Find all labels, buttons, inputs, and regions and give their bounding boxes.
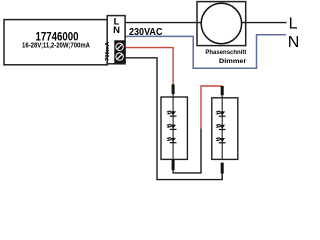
svg-text:N: N (113, 25, 120, 36)
LED module 2 anode pin (221, 86, 224, 95)
svg-text:L: L (289, 16, 298, 33)
LED D5 (215, 124, 225, 130)
driver box 17746000 (4, 20, 107, 65)
svg-text:Phasenschnitt: Phasenschnitt (205, 49, 247, 56)
terminal block on driver (107, 16, 125, 64)
LED D3 (166, 137, 176, 143)
wire L live 230VAC from driver to dimmer and mains L (125, 22, 287, 24)
dimmer U1 box (197, 2, 246, 46)
svg-text:Dimmer: Dimmer (219, 58, 247, 65)
wire series link black part LED module1 cathode to node (173, 128, 201, 173)
wire LED+ red from driver output to LED module 1 anode (125, 48, 173, 85)
LED module 1 box (161, 97, 187, 159)
LED module 1 anode pin (172, 84, 175, 94)
screw terminal output - (115, 52, 123, 60)
wire N neutral blue from driver around dimmer to mains N (125, 35, 286, 69)
LED module 2 box (212, 98, 238, 160)
LED module 1 internal string wire (172, 97, 174, 159)
LED D1 (166, 111, 176, 117)
svg-text:N: N (288, 34, 300, 51)
wire series link red part node to LED module 2 anode (201, 86, 222, 129)
dimmer rotary knob circle (201, 3, 241, 43)
screw terminal output + (115, 43, 123, 51)
output terminal housing (114, 40, 125, 63)
LED D4 (215, 111, 225, 117)
svg-text:230VAC: 230VAC (129, 26, 163, 38)
LED module 2 internal string wire (221, 98, 223, 160)
wire LED- return black from driver output under modules to LED module 2 cathode (125, 58, 222, 180)
svg-text:17746000: 17746000 (36, 32, 79, 44)
LED module 1 cathode pin (172, 160, 175, 170)
svg-text:700mA: 700mA (105, 41, 111, 61)
LED D2 (166, 124, 176, 130)
LED D6 (215, 137, 225, 143)
svg-text:16-28V;11,2-20W;700mA: 16-28V;11,2-20W;700mA (22, 43, 90, 50)
LED module 2 cathode pin (221, 163, 224, 174)
